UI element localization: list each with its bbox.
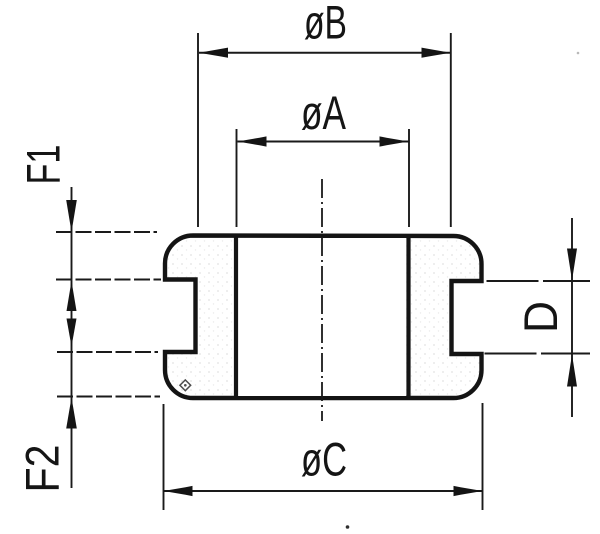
dimension øC dimension line <box>164 490 483 492</box>
F extension line top (body top) <box>56 231 157 233</box>
dimension øA extension line right <box>408 129 410 227</box>
dimension øA arrow right <box>380 136 409 146</box>
F extension line body bottom <box>57 396 160 398</box>
dimension øB extension line left <box>197 33 199 227</box>
F1 F2 dimension line vertical <box>71 187 73 488</box>
svg-text:D: D <box>515 301 568 333</box>
speck artifact bottom center <box>346 525 350 529</box>
dimension øB arrow left <box>199 48 228 58</box>
dimension øB extension line right <box>450 33 452 227</box>
hole wall right (øA) <box>406 236 410 397</box>
dimension F1 label <box>18 145 71 185</box>
F1 arrow up to slot top <box>67 281 77 311</box>
dimension øB dimension line <box>199 52 451 54</box>
D arrow down to slot top <box>567 249 577 281</box>
F2 arrow down to slot bottom <box>67 319 77 347</box>
dimension øC extension line right <box>482 403 484 510</box>
F2 arrow up to body bottom <box>66 398 77 429</box>
grommet body outline <box>165 236 482 399</box>
dimension øB arrow right <box>422 48 451 58</box>
vertical centerline <box>321 179 323 421</box>
watermark diamond artifact <box>180 380 191 391</box>
dimension D label <box>515 301 568 333</box>
svg-text:øA: øA <box>301 87 346 140</box>
D dimension line vertical <box>571 218 573 417</box>
F1 arrow down to body top <box>66 200 77 232</box>
svg-text:øB: øB <box>304 0 347 50</box>
dimension øB label <box>304 0 347 50</box>
dimension øC arrow left <box>164 486 193 496</box>
svg-text:F1: F1 <box>18 145 71 185</box>
D extension line top <box>487 280 591 282</box>
dimension øA label <box>301 87 346 140</box>
dimension F2 label <box>17 445 70 493</box>
svg-text:øC: øC <box>301 434 347 487</box>
dimension øC extension line left <box>163 404 165 510</box>
dimension øA extension line left <box>236 129 238 227</box>
dimension øA arrow left <box>238 136 267 146</box>
speck artifact top right <box>577 52 580 55</box>
dimension øC arrow right <box>454 486 483 496</box>
svg-text:F2: F2 <box>17 445 70 493</box>
D arrow up to slot bottom <box>567 355 577 387</box>
hole wall left (øA) <box>234 236 238 397</box>
dimension øA dimension line <box>238 141 409 143</box>
dimension øC label <box>301 434 347 487</box>
D extension line bottom <box>485 353 591 355</box>
F extension line slot top <box>56 279 161 281</box>
F extension line slot bottom <box>57 351 158 353</box>
